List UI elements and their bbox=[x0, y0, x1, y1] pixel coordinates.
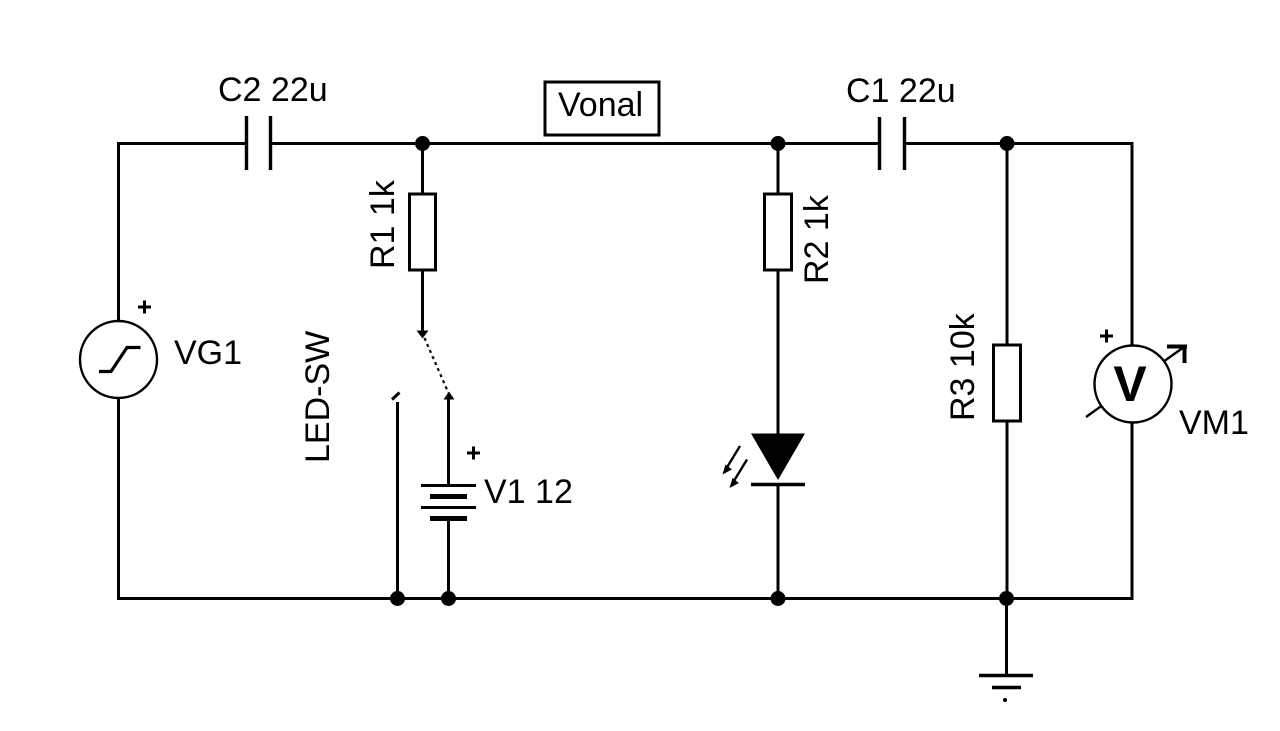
capacitor C1 bbox=[880, 117, 905, 170]
node junction dot bottom ground bbox=[999, 591, 1014, 606]
svg-text:VG1: VG1 bbox=[174, 334, 242, 372]
wire LED bottom lead bbox=[777, 484, 780, 599]
battery V1 bbox=[421, 486, 476, 519]
wire battery top lead bbox=[447, 398, 450, 486]
wire R2 to LED bbox=[777, 270, 780, 436]
switch LED-SW bbox=[392, 331, 455, 600]
node junction dot bottom switch pole bbox=[390, 591, 405, 606]
wire R3 bottom lead bbox=[1006, 421, 1009, 599]
plus sign V1 bbox=[467, 447, 480, 460]
resistor R1 bbox=[410, 194, 436, 270]
wire battery bottom lead bbox=[447, 520, 450, 599]
svg-text:V: V bbox=[1113, 356, 1147, 412]
wire left vertical upper bbox=[117, 142, 120, 322]
wire bottom horizontal bbox=[117, 597, 1134, 600]
label R2 1k bbox=[798, 194, 836, 284]
node junction dot top R1 bbox=[415, 136, 430, 151]
wire R1 top lead bbox=[421, 143, 424, 195]
label VM1 bbox=[1179, 404, 1249, 442]
voltage generator VG1 bbox=[80, 321, 157, 398]
label V1 12 bbox=[484, 473, 573, 511]
svg-text:VM1: VM1 bbox=[1179, 404, 1249, 442]
ground bbox=[979, 598, 1033, 702]
wire top segment right bbox=[905, 142, 1134, 145]
plus sign VM1 bbox=[1100, 330, 1113, 343]
node junction dot top R2 bbox=[771, 136, 786, 151]
wire R1 bottom lead bbox=[421, 270, 424, 333]
voltmeter VM1 bbox=[1086, 345, 1187, 423]
wire top segment left bbox=[118, 142, 246, 145]
label VG1 bbox=[174, 334, 242, 372]
svg-text:R2 1k: R2 1k bbox=[798, 194, 836, 284]
wire left vertical lower bbox=[117, 397, 120, 599]
label R3 10k bbox=[944, 312, 982, 421]
wire right vertical lower bbox=[1131, 421, 1134, 600]
resistor R2 bbox=[765, 194, 792, 270]
node junction dot top R3 bbox=[1000, 136, 1015, 151]
label R1 1k bbox=[364, 179, 402, 269]
LED D1 bbox=[723, 434, 806, 489]
node junction dot bottom battery bbox=[441, 591, 456, 606]
wire R2 top lead bbox=[777, 143, 780, 195]
svg-text:R3 10k: R3 10k bbox=[944, 312, 982, 421]
label C1 22u bbox=[846, 72, 956, 110]
svg-text:V1 12: V1 12 bbox=[484, 473, 573, 511]
wire top segment middle bbox=[270, 142, 879, 145]
wire right vertical upper bbox=[1131, 142, 1134, 347]
node label box Vonal bbox=[545, 82, 659, 135]
svg-text:C2 22u: C2 22u bbox=[218, 71, 328, 109]
plus sign VG1 bbox=[138, 301, 151, 314]
label C2 22u bbox=[218, 71, 328, 109]
svg-text:Vonal: Vonal bbox=[558, 86, 643, 124]
svg-text:R1 1k: R1 1k bbox=[364, 179, 402, 269]
svg-text:C1 22u: C1 22u bbox=[846, 72, 956, 110]
wire R3 top lead bbox=[1006, 143, 1009, 346]
resistor R3 bbox=[994, 345, 1021, 421]
node junction dot bottom LED bbox=[771, 591, 786, 606]
svg-text:LED-SW: LED-SW bbox=[299, 331, 337, 463]
capacitor C2 bbox=[247, 116, 271, 170]
label LED-SW bbox=[299, 331, 337, 463]
